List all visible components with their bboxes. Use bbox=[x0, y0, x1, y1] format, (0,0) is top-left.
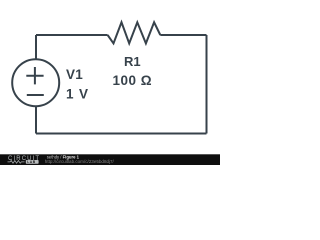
wire bottom horizontal bbox=[36, 133, 207, 135]
svg-text:http://circuitlab.com/c/23e5bd: http://circuitlab.com/c/23e5bd8dj7/ bbox=[45, 159, 115, 164]
logo zigzag bbox=[8, 161, 25, 164]
resistor R1 zigzag body bbox=[108, 22, 161, 43]
logo LAB badge bbox=[26, 160, 39, 164]
svg-text:1 V: 1 V bbox=[66, 87, 89, 102]
svg-text:LAB: LAB bbox=[27, 160, 36, 164]
svg-text:100 Ω: 100 Ω bbox=[113, 73, 153, 88]
svg-text:R1: R1 bbox=[124, 54, 141, 69]
watermark bar bbox=[0, 154, 220, 165]
svg-text:V1: V1 bbox=[66, 67, 83, 82]
minus sign bbox=[27, 94, 44, 96]
wire from resistor R1 to top-right corner bbox=[160, 34, 206, 36]
plus sign bbox=[26, 67, 43, 84]
wire right side vertical bbox=[206, 35, 208, 134]
wire top-left horizontal to resistor R1 bbox=[36, 34, 108, 36]
wire from bottom-left corner up to V1 bottom terminal bbox=[35, 106, 37, 134]
voltage source V1 circle bbox=[12, 59, 59, 106]
wire from V1 top terminal up the left side bbox=[35, 35, 37, 60]
